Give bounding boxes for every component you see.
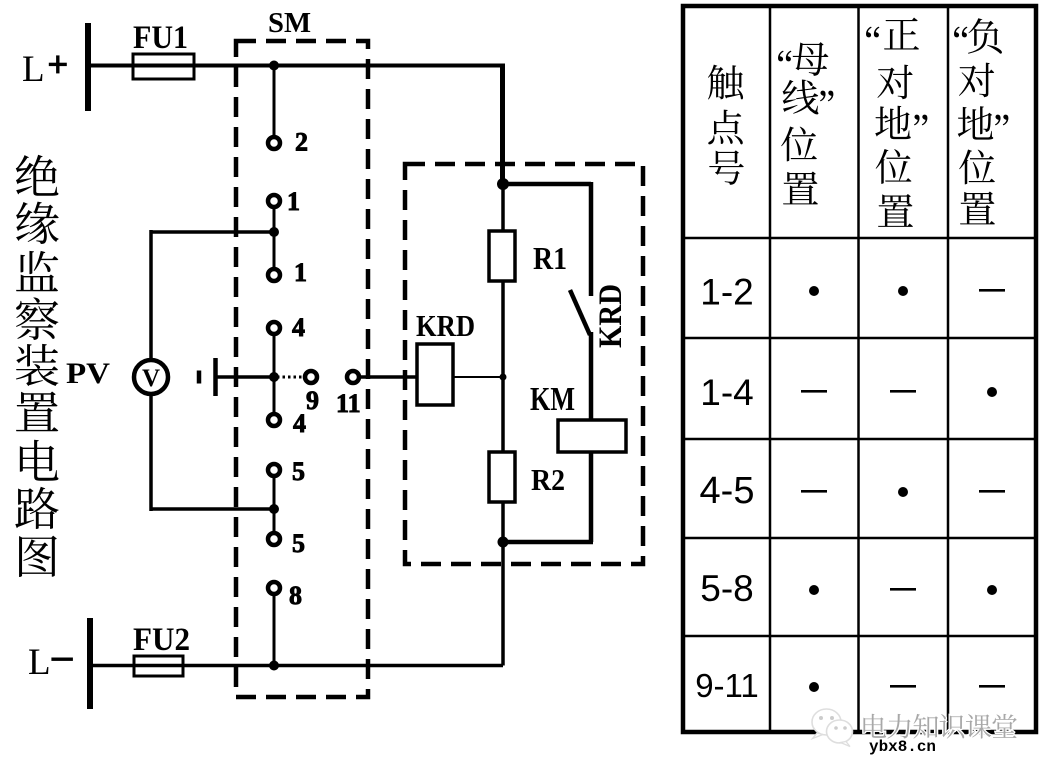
fuse FU1 (133, 54, 194, 79)
svg-text:L: L (28, 642, 51, 683)
wire branch upper vertical (589, 182, 594, 296)
wire L+ horizontal (88, 64, 502, 68)
svg-text:1: 1 (294, 258, 307, 287)
wire contact4-contact4 (273, 335, 276, 413)
table column line 2 (857, 8, 860, 730)
svg-text:4: 4 (293, 409, 306, 438)
busbar L- (87, 618, 93, 709)
table outer border (683, 6, 1036, 732)
title text (vertical) 绝缘监察装置电路图 (16, 155, 59, 196)
ground wire (216, 375, 274, 379)
wire dotted to contact 9 (277, 376, 304, 379)
relay unit dashed box (405, 164, 643, 564)
wire PV bottom vertical (149, 395, 153, 511)
contact 2 (268, 137, 280, 149)
table header 正对地位置 (866, 27, 879, 38)
node PV-top junction (269, 227, 279, 237)
busbar L+ (85, 23, 91, 111)
svg-text:R1: R1 (533, 240, 567, 276)
contact 4 upper (268, 322, 280, 334)
contact 4 lower (268, 414, 280, 426)
svg-text:9-11: 9-11 (695, 667, 759, 704)
svg-text:1-2: 1-2 (700, 272, 753, 313)
wire contact11 to KRD coil (359, 375, 417, 379)
svg-text:5: 5 (292, 529, 305, 558)
svg-text:KRD: KRD (416, 308, 475, 343)
wire L- horizontal (90, 664, 503, 668)
wire divider vertical (501, 184, 505, 666)
resistor R2 (489, 452, 515, 502)
wire to contact 2 (273, 66, 276, 137)
table header 触点号 (708, 65, 743, 100)
ground bar long (213, 358, 218, 396)
table row line 3 (685, 438, 1034, 441)
relay coil KRD (417, 344, 453, 405)
svg-text:9: 9 (306, 386, 319, 415)
wire KRD coil to divider (453, 376, 503, 378)
wire contact8 to bottom (273, 595, 276, 666)
table column line 3 (947, 8, 950, 730)
wire PV bottom horizontal (151, 507, 274, 511)
node PV-bottom junction (269, 504, 279, 514)
contact 1 upper (268, 195, 280, 207)
contact 5 upper (268, 464, 280, 476)
table header 负对地位置 (954, 27, 967, 38)
table row line 2 (685, 337, 1034, 340)
wire KM to bottom (589, 452, 594, 542)
contactor coil KM (558, 420, 626, 452)
table row line 5 (685, 635, 1034, 638)
contact 8 (268, 582, 280, 594)
switch blade KRD (570, 290, 590, 335)
svg-text:V: V (142, 365, 160, 392)
node bottom of divider (498, 537, 509, 548)
wire branch lower vertical (589, 332, 594, 420)
node bottom junction (269, 661, 279, 671)
svg-text:FU2: FU2 (133, 622, 190, 658)
svg-text:11: 11 (336, 389, 361, 418)
fuse FU2 (134, 656, 183, 676)
svg-text:2: 2 (295, 128, 308, 157)
svg-text:FU1: FU1 (133, 20, 188, 56)
watermark wechat icon (812, 709, 841, 735)
table column line 1 (769, 8, 772, 730)
svg-text:5: 5 (292, 457, 305, 486)
switch SM dashed box (236, 41, 368, 697)
node top junction (269, 61, 279, 71)
watermark text 电力知识课堂 (863, 714, 886, 738)
wire contact5-contact5 (273, 477, 276, 532)
svg-text:5-8: 5-8 (700, 568, 753, 609)
wire branch bottom (503, 540, 593, 545)
svg-text:R2: R2 (531, 462, 565, 497)
svg-text:1: 1 (287, 187, 300, 216)
node top of divider (497, 178, 509, 190)
table row line 4 (685, 537, 1034, 540)
wire PV top vertical (149, 230, 153, 359)
wire branch top (503, 182, 591, 187)
node divider mid (500, 374, 507, 381)
table header 母线位置 (778, 51, 791, 62)
wire contact1-contact1 (273, 208, 276, 268)
node ground junction (269, 372, 279, 382)
contact 1 lower (268, 269, 280, 281)
svg-text:KRD: KRD (593, 284, 629, 348)
svg-text:KM: KM (530, 381, 575, 418)
svg-text:ybx8.cn: ybx8.cn (869, 738, 936, 756)
contact 5 lower (268, 533, 280, 545)
table row line 1 (685, 237, 1034, 240)
svg-text:PV: PV (66, 357, 110, 390)
svg-text:SM: SM (268, 8, 311, 39)
contact 11 (347, 371, 359, 383)
wire top-right vertical (500, 64, 505, 185)
svg-text:4-5: 4-5 (700, 470, 755, 512)
ground bar short (197, 371, 202, 384)
svg-text:1-4: 1-4 (700, 372, 753, 413)
resistor R1 (489, 231, 515, 281)
svg-text:L: L (22, 49, 45, 90)
svg-text:4: 4 (292, 313, 305, 342)
wire PV top horizontal (151, 230, 274, 234)
svg-text:8: 8 (289, 581, 302, 610)
contact 9 (305, 371, 317, 383)
voltmeter PV (134, 360, 168, 394)
